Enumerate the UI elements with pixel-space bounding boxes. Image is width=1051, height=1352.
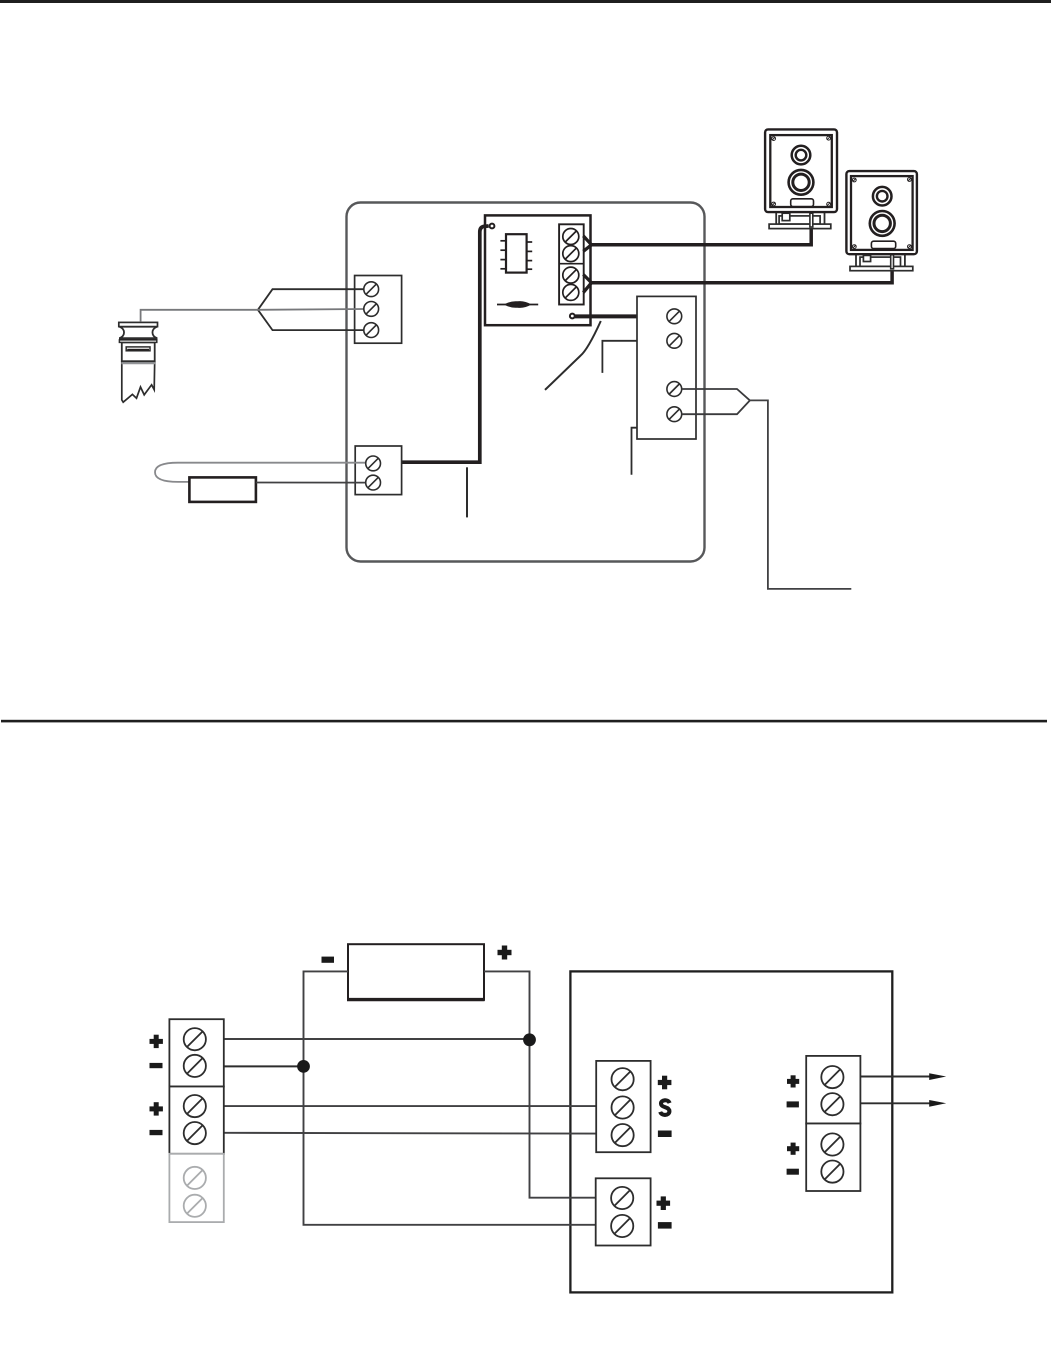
wire loop (TB4 screw1, U-turn into resistor) [155,463,367,482]
screws of TB1 [364,282,379,338]
circuit board U1 [485,215,591,325]
speaker SPK1 [765,129,837,228]
wire stub (TB3 bottom, L-shape) [632,428,638,475]
junction dot B [297,1060,310,1073]
terminal block TB10 (right upper, 2 screws) [806,1056,860,1124]
wire (to bottom right) [750,400,851,589]
label + (TB10) [787,1075,799,1087]
wire (resistor to TB4 screw2) [256,482,367,484]
label + (battery plus) [498,946,512,960]
pin B (board bottom) [570,314,575,319]
leader line (vertical pointer) [466,467,468,517]
label - (battery minus) [322,957,335,963]
pin A (board top-left) [490,224,495,229]
screws of TB4 [366,456,381,490]
leader line (curved pointer) [545,321,601,390]
IC U2 [500,234,532,272]
label S (TB8) [660,1100,669,1115]
terminal block TB3 (right, 4 screws) [637,296,696,439]
wire (TB6 + to TB8 S) [224,1105,596,1107]
wire (power feed from TB4 up to board pin) [402,226,489,462]
wire (board pin B to TB3) [574,314,637,318]
microphone MIC1 (left device) [119,322,158,402]
arrow (TB3 screws 3-4 chevron) [682,389,750,414]
wire to speaker 2 [592,269,893,283]
wire (TB10 + output arrow) [860,1073,946,1080]
label + (TB11) [787,1143,799,1155]
fuse F1 (lens component on board) [497,301,538,308]
battery B1 [347,944,485,1000]
wire (chevron to microphone) [141,310,258,322]
wire (TB10 - output arrow) [860,1100,946,1107]
label - (TB5) [150,1063,163,1068]
terminal block TB6 (2 screws) [169,1087,223,1154]
label + (TB9) [657,1196,671,1210]
terminal block TB8 (3 screws, + S -) [596,1061,650,1152]
terminal block TB5 (2 screws) [169,1019,223,1086]
terminal block TB7 (unused, gray) [169,1154,223,1222]
speaker SPK2 [846,171,917,271]
wire (battery plus, down and to TB9 screw1) [484,971,598,1197]
wire (TB5 + to junction) [224,1038,530,1040]
label + (TB6) [150,1102,163,1115]
arrow to speaker 2 [583,275,591,293]
label - (TB9) [658,1222,672,1229]
junction dot A [523,1033,536,1046]
terminal block TB9 (2 screws) [596,1178,651,1245]
arrow to speaker 1 [583,236,591,251]
terminal block TB4 (bottom-left, 2 screws) [355,446,401,495]
wire (TB1 screw2, gray) [258,308,365,311]
resistor R1 [189,477,256,502]
terminal block TB2 (board output, 4 screws) [559,224,584,304]
terminal block TB1 (left, 3 screws) [355,276,402,344]
wire to speaker 1 [592,227,812,245]
wire (TB1 screw3 to chevron) [258,310,365,330]
amplifier box [570,971,892,1292]
label - (TB11) [787,1169,799,1175]
label + (TB8) [658,1076,672,1090]
label - (TB6) [150,1130,163,1135]
wire (TB1 screw1 to chevron) [258,289,365,310]
enclosure box (main unit) [347,203,705,562]
wire (TB5 - to junction) [224,1065,304,1067]
wire (TB6 - to TB8 minus) [224,1132,596,1135]
wire stub (TB3 screw2, L-shape) [602,341,637,373]
terminal block TB11 (right lower, 2 screws) [806,1124,860,1192]
wire (battery minus, down and to TB9 screw2) [304,971,599,1224]
label + (TB5) [150,1035,163,1048]
label - (TB10) [787,1101,799,1107]
label - (TB8) [658,1131,672,1138]
